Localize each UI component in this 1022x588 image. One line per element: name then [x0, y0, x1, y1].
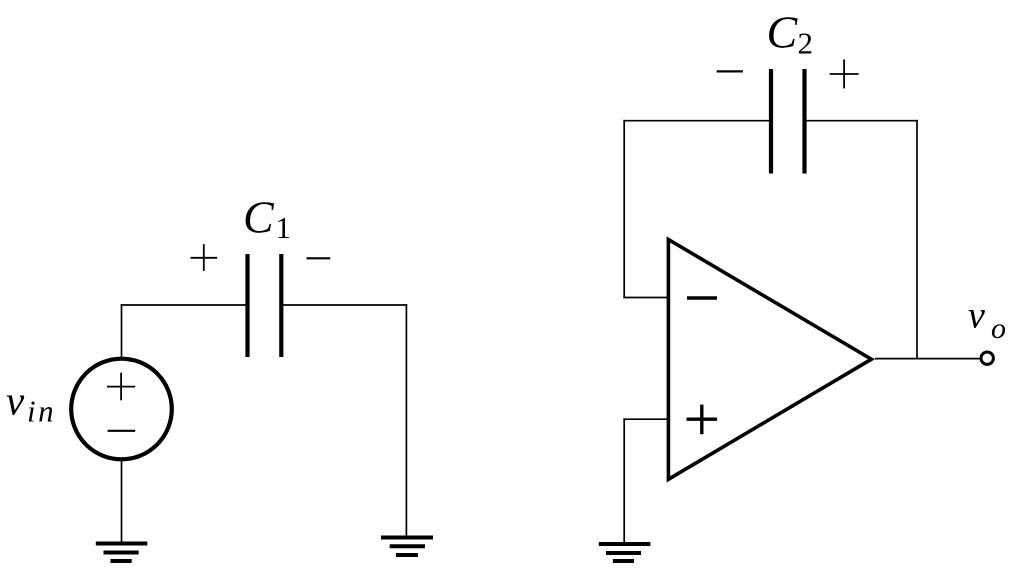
wire: non-inverting input	[623, 418, 669, 420]
capacitor C1 left plate	[245, 254, 249, 357]
ground G3 (op-amp non-inverting)	[599, 544, 651, 561]
capacitor C1 right plate	[279, 254, 283, 357]
wire: C1 right plate to right vertical	[283, 304, 407, 306]
label v_o	[968, 295, 1006, 345]
polarity plus of C1	[191, 244, 218, 271]
wire: source bottom vertical	[121, 460, 123, 544]
ground G1 (below source)	[96, 544, 148, 562]
svg-text:v: v	[6, 377, 25, 423]
wire: feedback left vertical	[623, 120, 625, 298]
op-amp plus input label	[687, 405, 718, 435]
label C1	[243, 191, 291, 245]
wire: down to op-amp ground	[623, 418, 625, 544]
polarity minus of C2	[717, 70, 743, 72]
wire: feedback right vertical	[916, 120, 918, 360]
svg-text:o: o	[991, 312, 1006, 345]
node v_o terminal circle	[981, 352, 993, 364]
svg-text:C: C	[243, 191, 275, 242]
wire: inverting input	[623, 297, 669, 299]
wire: feedback top horizontal left segment	[623, 120, 769, 122]
voltage source VS1 circle	[71, 359, 172, 460]
capacitor C2 left plate	[769, 69, 773, 174]
capacitor C2 right plate	[802, 69, 806, 174]
wire: output horizontal	[875, 358, 980, 360]
wire: vin top horizontal left segment	[121, 304, 246, 306]
wire: right vertical down to ground	[405, 304, 407, 537]
op-amp U1 triangle	[668, 240, 871, 480]
svg-text:v: v	[968, 295, 985, 337]
svg-text:C: C	[767, 7, 799, 58]
polarity minus of C1	[307, 257, 331, 259]
svg-text:2: 2	[798, 26, 814, 61]
polarity plus of C2	[830, 60, 859, 89]
svg-text:1: 1	[276, 210, 292, 245]
wire: source top vertical	[121, 304, 123, 358]
op-amp minus input label	[687, 296, 717, 299]
label C2	[767, 7, 814, 61]
svg-text:in: in	[27, 393, 56, 428]
wire: feedback top horizontal right segment	[806, 120, 918, 122]
voltage source plus sign	[107, 373, 135, 401]
ground G2 (right of C1)	[381, 538, 433, 556]
label v_in	[6, 377, 56, 428]
voltage source minus sign	[108, 430, 136, 432]
